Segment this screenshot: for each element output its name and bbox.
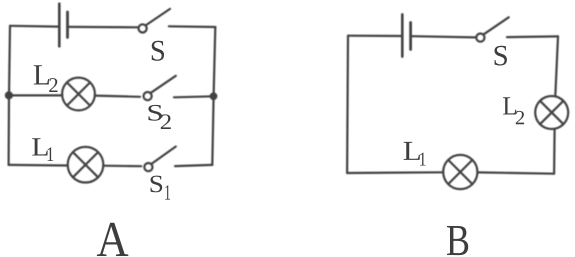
label S (circuit A switch S) xyxy=(152,41,164,61)
label A (figure A caption) xyxy=(97,223,128,256)
wire: circuit B top, switch S to right corner xyxy=(507,35,558,38)
wire: circuit B right vertical, corner to lamp L2 xyxy=(555,36,558,96)
wire: circuit A bottom, lamp L1 to switch S1 xyxy=(104,165,142,168)
node: right junction dot (circuit A) xyxy=(210,92,218,100)
wire: circuit B left vertical xyxy=(346,36,349,173)
wire: circuit A top, battery to switch S xyxy=(69,26,138,29)
switch S2 lever arm (circuit A) xyxy=(151,76,176,93)
label L1 (circuit B lamp L1) xyxy=(404,142,426,166)
wire: circuit A middle branch, switch S2 to right node xyxy=(174,96,214,97)
lamp L2 (circuit A) xyxy=(62,78,95,111)
wire: circuit A bottom, left corner to lamp L1 xyxy=(9,164,68,167)
switch S2 pivot (circuit A) xyxy=(144,92,152,100)
switch S pivot (circuit A) xyxy=(139,24,147,32)
switch S lever arm (circuit A) xyxy=(146,9,170,25)
switch S1 pivot (circuit A) xyxy=(144,163,152,171)
switch S lever arm (circuit B) xyxy=(484,17,509,34)
wire: circuit A middle branch, left node to lamp L2 xyxy=(9,94,62,96)
battery BT2 (circuit B) short plate xyxy=(409,23,412,50)
wire: circuit A top, left corner to battery xyxy=(10,25,58,28)
wire: circuit B bottom, right corner to lamp L1 xyxy=(477,172,554,173)
node: left junction dot (circuit A) xyxy=(5,91,13,99)
wire: circuit A bottom, switch S1 to right corner xyxy=(175,165,212,166)
lamp L1 (circuit A) xyxy=(68,147,104,183)
wire: circuit B top, left corner to battery xyxy=(348,35,401,37)
wire: circuit B bottom, lamp L1 to left corner xyxy=(347,171,443,174)
lamp L2 (circuit B) xyxy=(535,96,568,129)
wire: circuit A right vertical xyxy=(212,27,215,165)
wire: circuit A top, switch S to right corner xyxy=(169,25,215,28)
switch S pivot (circuit B) xyxy=(476,34,484,42)
label L2 (circuit B lamp L2) xyxy=(503,97,524,124)
label L1 (circuit A lamp L1) xyxy=(32,138,53,161)
wire: circuit B top, battery to switch S xyxy=(412,36,475,37)
label S2 (circuit A switch S2) xyxy=(148,105,170,129)
label L2 (circuit A lamp L2) xyxy=(34,65,58,92)
wire: circuit B right vertical, lamp L2 to bottom corner xyxy=(553,129,556,174)
battery BT1 (circuit A) long plate xyxy=(58,4,61,47)
switch S1 lever arm (circuit A) xyxy=(152,147,176,164)
battery BT2 (circuit B) long plate xyxy=(401,14,404,56)
battery BT1 (circuit A) short plate xyxy=(66,12,69,37)
lamp L1 (circuit B) xyxy=(443,155,477,189)
wire: circuit A middle branch, lamp L2 to switch S2 xyxy=(95,96,140,97)
wire: circuit A left vertical xyxy=(9,26,10,165)
label S (circuit B switch S) xyxy=(495,46,507,66)
label B (figure B caption) xyxy=(447,226,468,255)
label S1 (circuit A switch S1) xyxy=(151,176,171,200)
